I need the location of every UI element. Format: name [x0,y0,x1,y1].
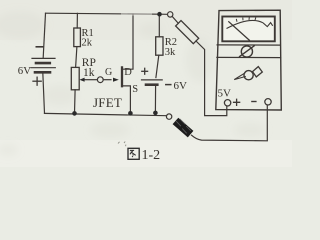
svg-text:2k: 2k [82,37,93,48]
svg-text:S: S [132,84,138,95]
svg-text:3k: 3k [165,47,176,58]
svg-text:6V: 6V [18,65,31,77]
svg-text:1k: 1k [83,67,95,79]
svg-text:D: D [124,67,132,78]
svg-text:5V: 5V [218,88,232,100]
svg-text:JFET: JFET [93,95,122,110]
svg-text:1-2: 1-2 [142,148,161,163]
svg-text:6V: 6V [174,80,188,92]
svg-text:G: G [105,67,112,78]
